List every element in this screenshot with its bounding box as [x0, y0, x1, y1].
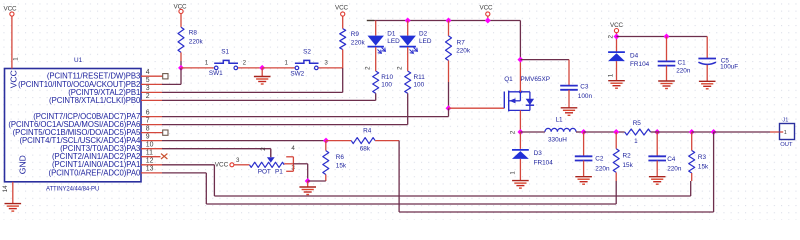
wire ground junction to SW2 pin1 [262, 67, 294, 69]
wire ground stem (P1) [307, 181, 309, 187]
junction D2 anode/VCC rail [405, 18, 411, 24]
node VCC rail corner down to Q1 [519, 21, 521, 60]
wire switch node to D3 [519, 132, 521, 149]
wire PB2 to junction [162, 83, 181, 85]
wire decoupling rail [617, 36, 708, 38]
svg-text:3: 3 [236, 157, 240, 164]
junction gate node [446, 105, 452, 111]
svg-text:15k: 15k [336, 163, 347, 170]
wire D3 anode to ground [519, 159, 521, 181]
svg-text:1: 1 [607, 73, 614, 77]
wire junction to R4 [326, 140, 351, 142]
svg-text:VCC: VCC [480, 5, 494, 12]
svg-text:FR104: FR104 [630, 61, 650, 68]
svg-text:D3: D3 [534, 150, 543, 157]
svg-text:C2: C2 [595, 155, 604, 162]
ground (D4) [608, 81, 625, 89]
junction switch node [517, 129, 523, 135]
wire U1 pin1 to VCC [11, 16, 13, 68]
svg-text:10: 10 [146, 142, 154, 149]
svg-text:68k: 68k [360, 146, 371, 153]
svg-text:D1: D1 [387, 30, 396, 37]
wire SW2 to R9 node [319, 67, 343, 69]
svg-text:1: 1 [13, 57, 20, 61]
svg-text:R5: R5 [633, 120, 642, 127]
junction C4 top / R5 right [654, 129, 660, 135]
svg-text:8: 8 [146, 125, 150, 132]
wire P1 to ground junction [293, 163, 307, 165]
svg-text:ATTINY24/44/84-PU: ATTINY24/44/84-PU [46, 186, 99, 192]
svg-text:SW2: SW2 [290, 71, 304, 78]
svg-text:4: 4 [146, 69, 150, 76]
junction C2 top [581, 129, 587, 135]
diode D3 FR104 [512, 150, 553, 167]
wire VCC to P1 [234, 164, 250, 166]
wire VCC top rail [374, 20, 520, 22]
svg-text:100n: 100n [578, 93, 593, 100]
svg-text:220n: 220n [667, 166, 682, 173]
wire R8 to SW1 node [180, 52, 182, 61]
svg-text:R3: R3 [698, 154, 707, 161]
svg-text:2: 2 [510, 130, 517, 134]
svg-text:13: 13 [146, 166, 154, 173]
svg-text:100: 100 [381, 81, 392, 88]
svg-text:S1: S1 [221, 49, 229, 56]
wire PB0 stub [141, 99, 162, 101]
wire PA0 stub [141, 172, 162, 174]
wire PA7 stub [141, 116, 162, 118]
switch S1 SW1 [209, 49, 238, 78]
svg-text:POT: POT [258, 169, 271, 176]
junction PA4/R6/R4 [323, 138, 329, 144]
wire J1 node to J1 [714, 131, 770, 133]
wire R5 to C4 junction [651, 131, 658, 133]
ground (C4) [649, 177, 666, 185]
resistor R10 [373, 71, 394, 93]
svg-text:S2: S2 [303, 49, 311, 56]
wire D1 cathode to R10 [375, 47, 377, 71]
power flag VCC (top-left, U1 pin 1) [4, 5, 18, 16]
svg-text:14: 14 [2, 185, 9, 192]
wire PB0 to R10 [162, 99, 376, 101]
diode D4 FR104 [608, 52, 650, 68]
junction P1/R6 ground node [305, 178, 311, 184]
svg-text:3: 3 [324, 60, 328, 67]
wire D4 anode to ground [616, 61, 618, 80]
wire P1 right bracket [286, 156, 293, 158]
junction VCC/D4/decoupling rail [614, 34, 620, 40]
wire C4 to ground [656, 161, 658, 177]
wire C4 junction to R3 junction [657, 131, 692, 133]
no-connect X pin 11 (PA2) [141, 156, 161, 158]
wire R4 to feedback rail [375, 140, 399, 142]
junction J1 node / feedback [711, 129, 717, 135]
wire C3 branch [520, 59, 569, 61]
wire C2 to ground [583, 161, 585, 177]
inductor L1 330uH [545, 116, 576, 143]
svg-text:VCC: VCC [174, 3, 188, 10]
svg-text:R2: R2 [623, 153, 632, 160]
resistor R4 [351, 128, 375, 153]
resistor R6 [323, 151, 347, 175]
svg-text:7: 7 [146, 117, 150, 124]
junction R7 top / VCC rail [446, 18, 452, 24]
wire C5 to ground [706, 65, 708, 81]
wire U1 pin14 to ground [12, 182, 14, 204]
wire gate node to Q1 gate [449, 107, 505, 109]
svg-text:R9: R9 [351, 31, 360, 38]
svg-text:1: 1 [509, 171, 516, 175]
wire PA1 sense rail [162, 164, 214, 166]
wire D2 cathode to R11 [407, 47, 409, 71]
wire VCC to D4 rail [616, 33, 618, 52]
wire R11 to PA6 row [407, 93, 409, 124]
wire R7 top stem [448, 21, 450, 36]
switch S2 SW2 [290, 49, 318, 78]
svg-text:R11: R11 [414, 74, 426, 81]
svg-text:2: 2 [364, 66, 371, 70]
no-connect square pin 8 (PA5) [141, 132, 163, 134]
svg-text:9: 9 [146, 133, 150, 140]
svg-text:R7: R7 [457, 39, 466, 46]
svg-text:2: 2 [243, 59, 247, 66]
IC U1 ATTINY24/44/84-PU microcontroller [5, 57, 142, 192]
svg-text:OUT: OUT [780, 142, 793, 148]
svg-text:220k: 220k [351, 39, 366, 46]
wire VCC to R9 [342, 16, 344, 28]
power flag VCC (R9) [335, 4, 349, 16]
resistor R11 [405, 71, 425, 93]
wire switch node to L1 [520, 131, 545, 133]
wire PA6 stub [141, 124, 162, 126]
wire PA3 to POT wiper [162, 148, 271, 150]
wire C1 to ground [666, 66, 668, 81]
transistor Q1 PMV65XP [504, 76, 550, 111]
wire PA4 stub [141, 140, 162, 142]
wire C4 stem [656, 132, 658, 156]
svg-text:C3: C3 [580, 84, 589, 91]
connector J1 OUT [780, 117, 795, 147]
capacitor C3 [560, 84, 592, 101]
ground (P1/R6) [299, 187, 316, 195]
wire rail corner to C5 [706, 37, 708, 59]
junction R3 top [689, 129, 695, 135]
svg-text:L1: L1 [556, 116, 564, 123]
wire Q1 drain down to switch node [519, 110, 521, 132]
capacitor C2 [575, 155, 610, 172]
resistor R9 [340, 29, 366, 50]
wire PA3 stub [141, 148, 162, 150]
wire R2 top stem [615, 132, 617, 149]
svg-text:D2: D2 [419, 30, 428, 37]
svg-text:3: 3 [146, 85, 150, 92]
svg-text:2: 2 [260, 147, 267, 151]
ground (C1) [658, 81, 675, 89]
capacitor C1 [658, 59, 691, 74]
wire PA6 to R11 [162, 124, 408, 126]
power flag VCC (P1) [215, 162, 234, 169]
no-connect square pin 4 (PB3) [141, 75, 163, 77]
wire R9 to SW2 node [342, 50, 344, 68]
svg-text:15k: 15k [698, 163, 709, 170]
svg-text:U1: U1 [74, 57, 83, 64]
diode D1 LED [368, 30, 401, 53]
svg-text:330uH: 330uH [548, 136, 567, 143]
svg-text:(PCINT8/XTAL1/CLKI)PB0: (PCINT8/XTAL1/CLKI)PB0 [49, 96, 141, 105]
wire L1 to C2 junction [576, 131, 584, 133]
junction R2 top / R5 left [613, 129, 619, 135]
resistor R2 [613, 149, 633, 173]
svg-text:PMV65XP: PMV65XP [521, 76, 550, 83]
potentiometer P1 POT [250, 150, 285, 176]
svg-text:12: 12 [146, 158, 154, 165]
resistor R3 [689, 151, 709, 174]
svg-text:R6: R6 [336, 154, 345, 161]
junction R8/SW1/PB2 [178, 65, 184, 71]
svg-text:(PCINT0/AREF/ADC0)PA0: (PCINT0/AREF/ADC0)PA0 [49, 168, 141, 177]
svg-text:R10: R10 [381, 74, 393, 81]
wire PB1 to R9/SW2 [162, 91, 343, 93]
wire SW1 to ground junction [238, 67, 262, 69]
wire PA1 stub [141, 164, 162, 166]
ground (U1 GND) [5, 204, 22, 212]
svg-text:R8: R8 [189, 30, 198, 37]
svg-text:P1: P1 [275, 169, 283, 176]
wire feedback rail (bottom) [399, 211, 713, 213]
svg-text:1: 1 [784, 130, 787, 136]
svg-text:1: 1 [634, 138, 638, 145]
wire R3 top stem [691, 132, 693, 151]
wire R6 top stem [325, 141, 327, 151]
svg-text:2: 2 [146, 93, 150, 100]
wire R3 junction to J1 node [692, 131, 714, 133]
wire C2 stem [583, 132, 585, 156]
svg-text:C1: C1 [678, 59, 687, 66]
svg-text:LED: LED [387, 38, 400, 45]
svg-text:2: 2 [396, 66, 403, 70]
power flag VCC (R8) [174, 3, 188, 13]
resistor R8 [178, 27, 203, 52]
svg-text:220k: 220k [189, 39, 204, 46]
wire C3 to ground [568, 90, 570, 108]
wire R6 bottom to ground junction [325, 175, 327, 182]
svg-text:J1: J1 [782, 117, 788, 123]
svg-text:R4: R4 [363, 128, 372, 135]
wire Q1 source to VCC junction [519, 60, 521, 92]
wire C2 junction to R5 [584, 131, 625, 133]
wire SW2 node down to PB1 row [342, 68, 344, 93]
svg-text:VCC: VCC [4, 5, 18, 12]
ground (D3) [512, 181, 529, 189]
capacitor C5 100uF (polarized) [698, 58, 738, 71]
svg-text:11: 11 [146, 150, 153, 157]
svg-text:SW1: SW1 [209, 70, 223, 77]
svg-text:4: 4 [291, 145, 295, 152]
svg-text:VCC: VCC [335, 4, 349, 11]
svg-text:GND: GND [18, 155, 28, 174]
wire PA7 to gate node [162, 116, 449, 118]
resistor R5 [625, 120, 651, 145]
svg-text:Q1: Q1 [504, 76, 513, 83]
svg-text:LED: LED [419, 38, 432, 45]
power flag VCC (rail) [480, 5, 494, 17]
ground (C5) [699, 81, 716, 89]
ground (C2) [575, 177, 592, 185]
junction VCC symbol/rail [485, 18, 491, 24]
svg-text:6: 6 [146, 109, 150, 116]
svg-text:VCC: VCC [610, 22, 624, 29]
wire D2 anode stem [407, 21, 409, 36]
wire VCC to R8 [180, 14, 182, 28]
capacitor C4 [648, 156, 681, 173]
svg-text:220n: 220n [595, 165, 610, 172]
wire PA0 sense rail [162, 172, 206, 174]
svg-text:220k: 220k [456, 48, 471, 55]
wire R2 bottom to PA0 rail [615, 172, 617, 181]
svg-text:220n: 220n [676, 67, 691, 74]
wire ground stem [261, 68, 263, 76]
power flag VCC (D4) [610, 22, 624, 33]
wire R7 bottom to gate junction [448, 61, 450, 83]
wire PA4 to divider junction [162, 140, 326, 142]
svg-text:FR104: FR104 [534, 159, 554, 166]
svg-text:1: 1 [285, 60, 289, 67]
wire R10 to PB0 row [375, 93, 377, 100]
svg-text:2: 2 [607, 35, 614, 39]
svg-text:C4: C4 [667, 156, 676, 163]
wire VCC rail end tick [367, 20, 374, 22]
ground (between switches) [254, 77, 271, 85]
wire junction to SW1 pin1 [181, 67, 214, 69]
wire PB1 stub [141, 91, 162, 93]
diode D2 LED [400, 30, 432, 53]
svg-text:15k: 15k [623, 162, 634, 169]
svg-text:1: 1 [205, 59, 209, 66]
svg-text:VCC: VCC [215, 162, 229, 169]
svg-text:D4: D4 [630, 52, 639, 59]
junction C1 top [664, 34, 670, 40]
junction Q1 source / C3 branch [517, 57, 523, 63]
ground (C3) [561, 108, 578, 116]
wire R3 bottom to PA1 rail [691, 173, 693, 181]
svg-text:100: 100 [414, 81, 425, 88]
junction switches ground [259, 65, 265, 71]
wire D1 anode stem [375, 21, 377, 36]
wire PB2 stub [141, 83, 162, 85]
resistor R7 [446, 36, 471, 61]
svg-text:5: 5 [146, 77, 150, 84]
svg-text:100uF: 100uF [720, 64, 738, 71]
wire C1 stem [666, 37, 668, 62]
